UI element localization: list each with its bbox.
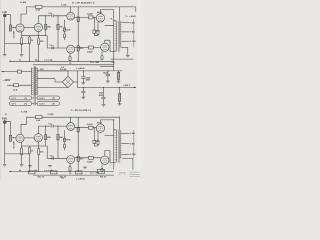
component box bottom <box>98 169 105 173</box>
transformer T1 primary <box>32 68 34 96</box>
tube V3b-A splitter <box>67 45 75 53</box>
winding heater loop 11 <box>37 102 59 106</box>
transformer OPT core <box>117 129 120 162</box>
wire V2 plate up <box>37 126 39 134</box>
wire secondary tap 16&#8486; <box>121 153 129 155</box>
junction dots PSU <box>83 70 84 71</box>
wire V2 cathode down <box>37 32 39 36</box>
wire bias rail 2 <box>33 174 114 176</box>
channel B (lower/right channel) <box>2 113 119 181</box>
wire jack ground down <box>4 124 6 164</box>
wire pot wiper arrow <box>12 27 13 28</box>
wire bias rail 2 <box>33 64 114 66</box>
wire secondary tap 16&#8486; <box>121 40 129 42</box>
junction dots on rail <box>29 61 30 62</box>
wire B+ rail 1 <box>77 87 133 89</box>
resistor R10-A grid stopper <box>93 30 96 33</box>
capacitor Ck1-A bypass <box>28 37 30 44</box>
tube V3b-B splitter <box>67 156 75 164</box>
ground C13 <box>102 104 106 106</box>
junction dot <box>57 15 58 16</box>
component box bus 1 <box>29 171 36 174</box>
wire secondary tap 8&#8486; <box>121 31 129 33</box>
wire speaker return vertical <box>133 19 135 48</box>
fuse F-A on rail <box>36 5 43 8</box>
ground bottom bus 3 <box>83 167 87 169</box>
wire V1 plate up to rail <box>21 117 26 134</box>
wire V1 cathode bus <box>22 36 48 54</box>
transformer T1 core <box>34 67 36 96</box>
fuse F-B on rail <box>36 116 43 119</box>
wire V3b to V4b grid <box>75 47 101 49</box>
wire resistor column A <box>45 126 47 146</box>
tube V2-B second stage <box>34 134 42 142</box>
winding heater loop 10 <box>37 96 59 100</box>
junction dot <box>57 126 58 127</box>
arrowhead mains <box>1 71 3 73</box>
capacitor C13 filter <box>103 88 105 98</box>
resistor Rk1-B cathode <box>21 148 23 155</box>
resistor Rk3-B <box>69 166 71 171</box>
capacitor C1-B coupling 0.1u <box>52 125 53 128</box>
capacitor C4-B coupling 0.1u <box>52 157 53 160</box>
wire speaker return vertical B <box>133 130 135 159</box>
wire V1 plate to V2 grid <box>24 137 34 139</box>
capacitor C12 filter <box>82 88 84 92</box>
tube V4a-A output pentode <box>96 14 104 22</box>
wire V1 plate up to rail <box>21 7 26 24</box>
wire V2 cathode down <box>37 142 39 146</box>
wire V3b grid row <box>51 47 67 49</box>
resistor Rk5-B <box>101 168 103 171</box>
ground input <box>3 165 7 167</box>
wire C10 lower <box>82 78 84 82</box>
wire lower return <box>100 65 114 67</box>
wire bias rail 1 with arrow <box>9 171 114 173</box>
wire V4a cathode network <box>95 22 99 36</box>
transformer OPT primary winding <box>115 21 117 52</box>
ground OPT common <box>126 55 130 57</box>
wire jack ground down <box>4 17 6 54</box>
channel A (upper/left channel) <box>2 1 119 70</box>
wire V4a cathode network <box>95 132 99 146</box>
wire C13 lower <box>103 99 105 104</box>
wire V4b plate to OPT bottom <box>105 40 116 51</box>
wire Rg2 down to rail <box>38 36 40 62</box>
wire mains line 1 <box>2 71 32 73</box>
resistor R21 bleeder <box>119 88 121 104</box>
ground C10 <box>81 83 85 85</box>
resistor Rg2-A grid leak <box>38 38 40 45</box>
wire rail into OPT top <box>118 7 120 20</box>
ground R21 <box>118 104 122 106</box>
resistor R8-A <box>77 17 79 22</box>
resistor R5-B <box>45 135 47 140</box>
wire ground bus under pot <box>5 153 30 155</box>
wire OPT bottom to feedback <box>111 47 134 59</box>
wire Ck1 to bus <box>29 36 31 62</box>
wire right dropping column <box>77 7 79 61</box>
wire resistor column A <box>45 16 47 36</box>
transformer OPT primary winding <box>115 130 117 163</box>
resistor R10-B grid stopper <box>93 140 96 143</box>
transformer OPT secondary winding <box>120 130 121 158</box>
arrowhead rail1 <box>9 171 11 173</box>
capacitor C10 filter <box>82 71 84 77</box>
wire right dropping column <box>77 117 79 171</box>
wire V4a-B plate to OPT <box>100 120 115 130</box>
wire C12 lower <box>82 93 84 97</box>
wire rail right extension <box>119 7 136 12</box>
wire V3a bias column <box>64 20 66 40</box>
wire screen line B <box>105 129 114 169</box>
wire C4 feed <box>47 146 52 158</box>
resistor R9-A <box>77 46 79 51</box>
resistor Rk4-A <box>97 30 99 35</box>
capacitor C6-A 0.22u <box>89 46 94 49</box>
wire jack signal to pot <box>6 15 10 25</box>
wire jack signal to pot <box>6 121 10 135</box>
resistor Rk4-B <box>97 140 99 145</box>
capacitor C4-A coupling 0.1u <box>52 47 53 50</box>
tube V4a-B output pentode <box>96 124 104 132</box>
wire V3b grid row <box>51 157 67 159</box>
wire V2 plate up <box>37 16 39 24</box>
capacitor C5-A 0.22u <box>88 16 93 19</box>
tube V1-B input triode <box>16 134 24 142</box>
wire coupling row <box>38 125 67 127</box>
transformer OPT body shade <box>115 21 121 52</box>
wire V3a to V4a grid <box>75 16 97 18</box>
capacitor C3-A <box>63 34 65 38</box>
tube V3a-B driver <box>67 123 75 131</box>
potentiometer P-A volume <box>9 25 11 31</box>
capacitor C6-B 0.22u <box>89 156 94 159</box>
wire plate supply rail <box>26 6 119 8</box>
resistor Rk1-A cathode <box>21 38 23 45</box>
wire V3a plate to rail <box>70 7 72 12</box>
ground cathode <box>20 165 24 167</box>
wire V4b-B plate to OPT bottom <box>105 151 116 163</box>
wire secondary tap 8&#8486; <box>121 143 129 145</box>
wire OPT-B bottom out <box>122 158 133 169</box>
transformer T1 core lower lines <box>34 95 36 105</box>
capacitor C11 filter <box>107 71 109 74</box>
ground bottom bus 2 <box>48 165 52 167</box>
wire wiper to V1 grid <box>13 137 16 139</box>
wire plate supply rail <box>26 116 119 118</box>
resistor R6-B <box>57 135 59 140</box>
wire bias rail 1 with arrow <box>9 60 114 62</box>
wire CT tap <box>37 79 62 82</box>
fuse F2 <box>14 84 19 87</box>
ground cathode <box>20 54 24 56</box>
wire resistor column B <box>57 126 59 158</box>
transformer OPT secondary winding <box>120 21 121 47</box>
wire V3a to V4a grid <box>75 127 97 129</box>
wire heater connectors <box>32 98 37 104</box>
wire C4 feed <box>47 36 52 48</box>
resistor R9-B <box>77 156 79 161</box>
switch S1 <box>18 70 22 73</box>
watermark lines <box>130 172 141 176</box>
ground C11 <box>106 81 110 83</box>
resistor R7-B <box>63 138 65 141</box>
transformer OPT core <box>117 20 120 51</box>
wire coupling row <box>38 15 67 17</box>
wire Rg2 down to rail <box>38 146 40 172</box>
transformer T1 secondary <box>36 68 37 96</box>
resistor Rk3-A <box>69 56 71 61</box>
tube V3a-A driver <box>67 12 75 20</box>
wire HV secondary to bridge <box>37 71 68 88</box>
wire secondary tap 4&#8486; <box>121 22 129 24</box>
wire resistor column B <box>57 16 59 48</box>
component box bus 2 <box>51 171 58 174</box>
junction dot <box>94 17 95 18</box>
wire B+ rail 0 <box>37 70 122 72</box>
wire bridge plus out <box>74 71 78 88</box>
wire pot wiper arrow <box>12 137 13 138</box>
wire V4b cathode network <box>101 52 103 56</box>
junction dots B <box>113 119 114 120</box>
capacitor Ck1-B bypass <box>28 147 30 154</box>
junction dot <box>94 127 95 128</box>
wire V3b cathode down <box>69 53 71 56</box>
winding heater loop 01 <box>9 102 31 106</box>
rectifier bridge D1 <box>62 76 73 87</box>
wire V1 cathode down <box>21 32 23 38</box>
ground bottom bus 1 <box>28 165 32 167</box>
wire V3b to V4b grid <box>75 157 101 159</box>
transformer OPT body shade <box>115 130 121 163</box>
resistor R20 bleeder <box>118 71 120 81</box>
junction dot <box>45 126 46 127</box>
resistor R7-A <box>63 28 65 31</box>
capacitor C1-A coupling 0.1u <box>52 14 53 17</box>
wire rail into OPT-B top <box>118 117 120 129</box>
connector J-A input jack <box>3 13 6 17</box>
resistor R5-A <box>45 24 47 29</box>
wire V3b cathode down <box>69 164 71 167</box>
connector J-B input jack <box>3 120 6 124</box>
component box bus 3 <box>76 171 83 174</box>
resistor R6-A <box>57 24 59 29</box>
wire V1 cathode bus <box>22 146 48 164</box>
wire V4b cathode network <box>101 164 103 168</box>
ground C12 <box>81 97 85 99</box>
wire wiper to V1 grid <box>13 27 16 29</box>
junction dot <box>45 15 46 16</box>
wire grid stopper column <box>93 17 95 30</box>
wire secondary tap 4&#8486; <box>121 133 129 135</box>
arrowhead +400V <box>134 87 136 89</box>
resistor Rk5-A <box>101 55 103 60</box>
capacitor C5-B 0.22u <box>88 126 93 129</box>
wire V1 cathode down <box>21 142 23 148</box>
wire V1 plate to V2 grid <box>24 27 34 29</box>
tube V4b-A output pentode <box>101 43 109 51</box>
resistor R8-B <box>77 127 79 132</box>
capacitor C3-B <box>63 144 65 148</box>
ground input <box>3 54 7 56</box>
junction dots on rail <box>29 171 30 172</box>
ground R20 <box>117 81 121 83</box>
arrowhead rail1 <box>9 61 11 63</box>
wire V3a bias column <box>64 130 66 150</box>
tube V4b-B output pentode <box>101 156 109 164</box>
potentiometer P-B volume <box>9 135 11 141</box>
winding heater loop 00 <box>9 96 31 100</box>
resistor Rg2-B grid leak <box>38 148 40 155</box>
tube V1-A input triode <box>16 24 24 32</box>
tube V2-A second stage <box>34 23 42 31</box>
wire V3a plate to rail <box>70 117 72 122</box>
wire Ck1 to bus <box>29 146 31 172</box>
wire grid stopper column <box>93 128 95 140</box>
wire ground bus under pot <box>5 43 30 45</box>
wire screen line <box>105 21 114 71</box>
wire mains line 2 <box>7 84 32 86</box>
wire V4a plate to OPT <box>100 10 115 21</box>
wire C11 lower <box>107 76 109 81</box>
